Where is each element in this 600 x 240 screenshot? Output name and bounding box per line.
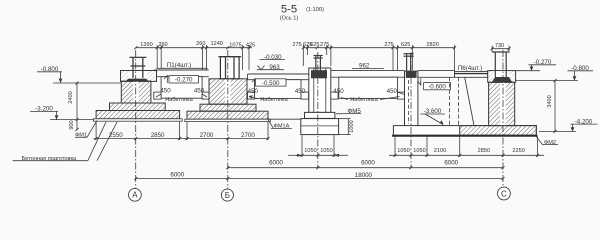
svg-text:625: 625 bbox=[310, 42, 319, 48]
svg-text:275: 275 bbox=[292, 42, 301, 48]
foundation A lean concrete layer bbox=[94, 119, 183, 121]
elevation -0.800 right bbox=[571, 65, 589, 72]
svg-text:6000: 6000 bbox=[361, 160, 375, 167]
label P6 bbox=[458, 65, 482, 72]
label concrete base bbox=[22, 156, 77, 162]
axis circle C bbox=[498, 187, 511, 200]
bay2 pad left bbox=[248, 92, 255, 99]
foundation B lean concrete layer bbox=[185, 119, 270, 121]
svg-text:1075: 1075 bbox=[229, 43, 241, 49]
bay2 pad right bbox=[301, 92, 309, 99]
dim row2 bbox=[296, 154, 340, 156]
foundation B column bbox=[220, 57, 239, 79]
svg-text:2700: 2700 bbox=[200, 132, 214, 139]
svg-text:450: 450 bbox=[333, 88, 344, 95]
top dim extensions pier4 bbox=[392, 45, 394, 70]
cap top extension line bbox=[516, 70, 540, 72]
dim 450 bay2 left bbox=[248, 88, 259, 95]
pier 3 cap step bbox=[305, 112, 335, 118]
dim row3 bbox=[228, 167, 503, 169]
svg-text:6000: 6000 bbox=[444, 160, 458, 167]
label nabetonka bay1 bbox=[165, 97, 193, 103]
pier 3 grout fill bbox=[311, 70, 327, 78]
big slab pier4 to C bbox=[393, 126, 536, 136]
svg-text:6000: 6000 bbox=[170, 172, 184, 179]
svg-text:625: 625 bbox=[401, 42, 410, 48]
level line -3.200 bbox=[50, 119, 94, 121]
label nabetonka bay2 bbox=[260, 97, 288, 103]
svg-text:900: 900 bbox=[69, 120, 75, 129]
elevation -0.500 boxed bbox=[255, 79, 286, 86]
svg-text:450: 450 bbox=[295, 88, 306, 95]
bay2 beam body bbox=[255, 80, 302, 99]
svg-text:1050: 1050 bbox=[320, 148, 332, 154]
axis line A bbox=[135, 50, 137, 188]
foundation A cap bbox=[121, 71, 157, 82]
big slab hatched part bbox=[460, 126, 537, 136]
foundation C wall hatched bbox=[489, 82, 515, 125]
ground line right bbox=[516, 80, 578, 82]
svg-text:1050: 1050 bbox=[304, 148, 316, 154]
top dim ticks bbox=[134, 46, 456, 49]
svg-text:2250: 2250 bbox=[512, 148, 524, 154]
svg-text:2400: 2400 bbox=[68, 91, 74, 103]
elevation -0.800 left bbox=[41, 66, 59, 73]
svg-text:18000: 18000 bbox=[355, 172, 373, 179]
label nabetonka bay3 bbox=[350, 97, 378, 103]
buttress slope bbox=[465, 77, 474, 125]
pier 3 footing bbox=[301, 119, 339, 135]
axis line pier4 bbox=[410, 52, 412, 169]
svg-text:275: 275 bbox=[384, 42, 393, 48]
svg-text:Набетонка: Набетонка bbox=[165, 97, 193, 103]
elevation -3.600 bbox=[424, 108, 442, 115]
П6 beam bbox=[455, 72, 488, 78]
svg-text:450: 450 bbox=[248, 88, 259, 95]
svg-text:Б: Б bbox=[225, 191, 230, 200]
top dim extensions B bbox=[202, 45, 204, 70]
bay1 beam body bbox=[161, 77, 202, 99]
bay3 pad right bbox=[398, 92, 405, 99]
pier 3 bolts bbox=[314, 56, 323, 71]
svg-text:Набетонка: Набетонка bbox=[350, 97, 378, 103]
foundation A anchor bolts bbox=[129, 57, 146, 78]
svg-text:450: 450 bbox=[387, 88, 398, 95]
svg-text:5-5: 5-5 bbox=[281, 3, 297, 15]
svg-text:(Ось 1): (Ось 1) bbox=[280, 16, 299, 22]
svg-text:1390: 1390 bbox=[140, 42, 152, 48]
svg-text:А: А bbox=[132, 191, 138, 200]
beam band bay B-3 bbox=[248, 74, 309, 80]
left vertical dim bbox=[76, 83, 78, 130]
svg-text:Набетонка: Набетонка bbox=[260, 97, 288, 103]
svg-text:275: 275 bbox=[320, 42, 329, 48]
svg-text:2100: 2100 bbox=[434, 148, 446, 154]
foundation A slab hatched bbox=[96, 111, 180, 119]
svg-text:2850: 2850 bbox=[151, 132, 165, 139]
row2 outer arrows pier3 bbox=[288, 154, 296, 156]
foundation A step hatched bbox=[110, 103, 166, 111]
svg-text:2700: 2700 bbox=[241, 132, 255, 139]
axis line pier3 bbox=[317, 52, 319, 169]
svg-text:260: 260 bbox=[196, 41, 205, 47]
top dim texts bbox=[140, 41, 439, 48]
label FM5 bbox=[348, 108, 362, 115]
foundation C grout pad bbox=[492, 77, 512, 82]
pier 4 hidden lines bbox=[408, 80, 410, 124]
title 5-5 bbox=[280, 3, 324, 21]
dim 450 bay1 right bbox=[194, 87, 205, 94]
axis circle A bbox=[129, 188, 142, 201]
pier 4 bolts bbox=[404, 54, 414, 72]
elevation -3.200 left bbox=[35, 106, 53, 113]
svg-text:425: 425 bbox=[246, 43, 255, 49]
axis line C bbox=[502, 50, 504, 187]
elevation -0.270 right bbox=[534, 59, 552, 66]
dim 450 bay1 left bbox=[160, 87, 171, 94]
svg-text:-0.600: -0.600 bbox=[428, 84, 446, 91]
beam band bay 3-4 bbox=[331, 70, 405, 77]
svg-text:-0.500: -0.500 bbox=[262, 80, 280, 87]
svg-text:2850: 2850 bbox=[478, 148, 490, 154]
dim 730 bbox=[492, 48, 509, 50]
axis line B bbox=[227, 50, 229, 189]
svg-text:П6(4шт.): П6(4шт.) bbox=[458, 65, 482, 72]
pier 4 grout fill bbox=[406, 71, 417, 78]
svg-text:260: 260 bbox=[158, 42, 167, 48]
top dim row bbox=[136, 47, 252, 49]
foundation A pier hatched bbox=[121, 81, 151, 103]
foundation C bolts bbox=[492, 52, 510, 77]
svg-text:С: С bbox=[501, 189, 507, 198]
ground line left bbox=[53, 82, 121, 84]
buttress at C left bbox=[454, 71, 456, 78]
excavation line B-3 bbox=[268, 118, 301, 120]
top dim extensions A bbox=[156, 45, 158, 68]
dim 450 bay2 right bbox=[295, 88, 306, 95]
foundation C cap bbox=[488, 71, 516, 83]
dim row1 bbox=[94, 138, 269, 140]
label FM1 bbox=[75, 133, 87, 139]
svg-text:1240: 1240 bbox=[210, 41, 222, 47]
svg-text:1000: 1000 bbox=[349, 120, 355, 132]
bay3 pad left bbox=[331, 92, 338, 99]
top dim extensions pier3 bbox=[302, 45, 304, 66]
dim 450 pier4 left arrow bbox=[399, 93, 405, 95]
svg-text:2820: 2820 bbox=[426, 42, 438, 48]
foundation B pier hatched bbox=[209, 79, 247, 104]
svg-text:3400: 3400 bbox=[547, 95, 553, 107]
dim 963 bbox=[269, 64, 280, 71]
foundation A grout pad bbox=[125, 79, 149, 82]
svg-text:730: 730 bbox=[495, 43, 504, 49]
foundation B column bolts bbox=[225, 58, 227, 79]
svg-text:450: 450 bbox=[160, 87, 171, 94]
dim 450 bay3 left bbox=[333, 88, 344, 95]
buttress hidden edges bbox=[449, 77, 451, 125]
label FM2 bbox=[544, 140, 556, 146]
label FM1A bbox=[274, 124, 290, 130]
beam band bay 4-C bbox=[418, 71, 455, 78]
axis circle B bbox=[221, 189, 233, 201]
dim 450 bay3 right bbox=[387, 88, 398, 95]
dim 1000 pier3 footing bbox=[347, 119, 349, 135]
svg-text:1050: 1050 bbox=[413, 148, 425, 154]
elevation -0.030 bbox=[264, 54, 282, 61]
bay1 pad right bbox=[202, 92, 209, 99]
svg-text:1050: 1050 bbox=[397, 148, 409, 154]
beam band bay A-B bbox=[154, 70, 209, 77]
pier 4 body bbox=[405, 71, 418, 126]
pier 3 body bbox=[309, 68, 331, 112]
elevation -0.600 boxed bbox=[424, 83, 451, 90]
foundation B slab hatched bbox=[187, 111, 268, 119]
elevation -0.270 boxed bbox=[169, 76, 199, 84]
dim 3400 right bbox=[554, 81, 556, 132]
bay3 beam body bbox=[339, 77, 398, 98]
svg-text:450: 450 bbox=[194, 87, 205, 94]
dim row4 bbox=[136, 178, 503, 180]
elevation -4.200 bbox=[575, 118, 593, 125]
svg-text:6000: 6000 bbox=[269, 160, 283, 167]
dim 962 bbox=[359, 62, 370, 69]
bay1 pad left bbox=[154, 92, 161, 99]
foundation B step hatched bbox=[200, 104, 256, 111]
svg-text:(1:100): (1:100) bbox=[306, 7, 324, 13]
slab thick bottom line bbox=[392, 135, 538, 137]
svg-text:-0.270: -0.270 bbox=[175, 77, 193, 84]
